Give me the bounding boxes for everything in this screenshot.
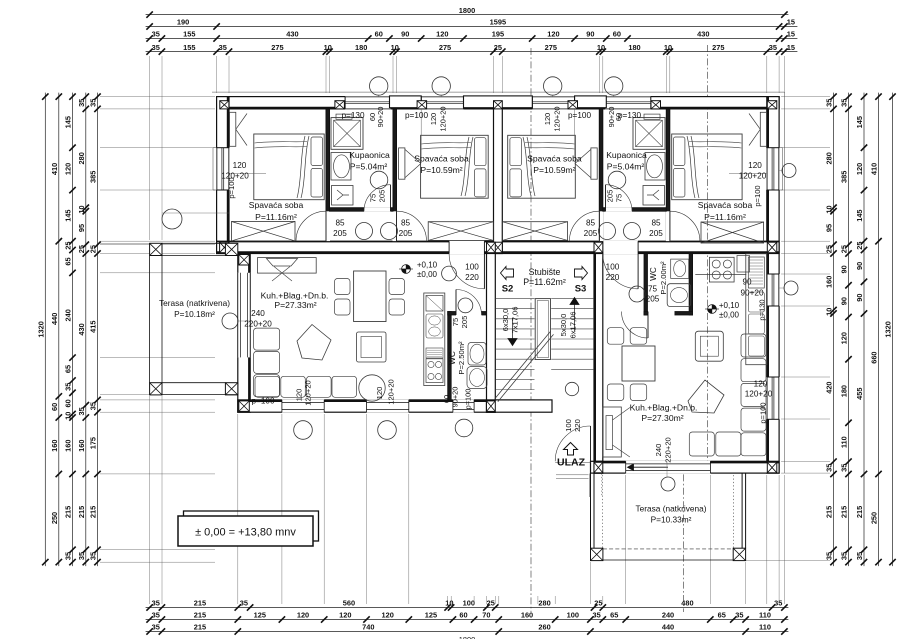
svg-text:120: 120: [543, 113, 552, 125]
svg-text:S2: S2: [502, 284, 514, 295]
svg-text:125: 125: [254, 611, 266, 620]
right terrace roof overhang dotted: [602, 475, 604, 548]
extension lines bottom: [149, 396, 151, 604]
svg-text:75: 75: [615, 194, 624, 202]
svg-text:35: 35: [774, 599, 782, 608]
right kitchen stove: [709, 257, 734, 282]
door gap bed1: [326, 211, 331, 241]
windows left living south: [281, 400, 283, 412]
svg-text:1320: 1320: [884, 321, 893, 337]
bath2 shower: [633, 118, 665, 150]
bath2 washbasin: [645, 153, 665, 181]
svg-text:90+20: 90+20: [376, 107, 385, 128]
svg-text:WC: WC: [649, 267, 658, 281]
north exterior wall: [217, 97, 780, 109]
svg-text:85: 85: [401, 219, 411, 228]
svg-text:P=2.00m²: P=2.00m²: [659, 261, 668, 295]
door left WC: [456, 290, 482, 316]
svg-text:P=11.16m²: P=11.16m²: [704, 212, 746, 222]
stair south wall segment: [487, 400, 553, 412]
svg-text:120: 120: [233, 161, 247, 170]
door ULAZ: [555, 426, 590, 461]
svg-text:10: 10: [324, 43, 332, 52]
svg-text:10: 10: [664, 43, 672, 52]
east exterior wall: [767, 97, 779, 474]
sliding door arrow right terrace: [632, 466, 668, 468]
svg-text:215: 215: [64, 506, 73, 518]
svg-text:120: 120: [436, 30, 448, 39]
svg-text:P=10.59m²: P=10.59m²: [420, 165, 462, 175]
svg-text:35: 35: [89, 99, 98, 107]
door bed1: [296, 211, 326, 241]
svg-text:240: 240: [251, 309, 265, 318]
svg-text:10: 10: [825, 205, 834, 213]
svg-text:35: 35: [152, 43, 160, 52]
right kitchen counter north: [695, 274, 746, 276]
svg-text:220+20: 220+20: [244, 320, 272, 329]
svg-text:Terasa (natkrivena): Terasa (natkrivena): [635, 504, 706, 514]
svg-text:420: 420: [825, 381, 834, 393]
svg-text:215: 215: [77, 506, 86, 518]
svg-text:p=100: p=100: [227, 177, 236, 198]
svg-text:205: 205: [584, 229, 598, 238]
left kitchen sink: [426, 314, 443, 338]
svg-text:240: 240: [662, 611, 674, 620]
bed4 radiator box: [701, 222, 764, 243]
door right WC: [622, 312, 649, 339]
svg-text:660: 660: [870, 351, 879, 363]
svg-text:120+20: 120+20: [553, 107, 562, 132]
svg-text:120: 120: [295, 389, 304, 402]
svg-text:125: 125: [425, 611, 437, 620]
svg-text:430: 430: [77, 323, 86, 335]
right dimension block: [833, 93, 835, 566]
left armchair rotated: [297, 325, 331, 361]
svg-text:+0,10: +0,10: [417, 261, 438, 270]
svg-text:35: 35: [89, 552, 98, 560]
bed1 wardrobe: [230, 112, 236, 146]
door left apartment: [449, 254, 484, 289]
svg-text:10: 10: [77, 205, 86, 213]
left kitchen stove: [426, 359, 443, 383]
ULAZ threshold line: [555, 462, 590, 464]
svg-text:160: 160: [521, 611, 533, 620]
svg-text:250: 250: [870, 512, 879, 524]
svg-text:1800: 1800: [459, 635, 475, 639]
right kitchen counter east: [746, 254, 767, 365]
svg-text:35: 35: [825, 552, 834, 560]
stair treads right flight: [551, 298, 594, 300]
svg-text:25: 25: [89, 245, 98, 253]
left dimension block: [44, 93, 46, 566]
svg-text:240: 240: [64, 309, 73, 321]
window right-living east 120: [767, 377, 780, 419]
bath2 door gap: [606, 207, 633, 212]
door opening left apartment entry: [449, 241, 484, 255]
svg-text:120+20: 120+20: [439, 107, 448, 132]
svg-text:Stubište: Stubište: [529, 267, 561, 277]
svg-text:120: 120: [339, 611, 351, 620]
svg-text:480: 480: [681, 599, 693, 608]
bath1 shower: [331, 118, 363, 150]
svg-text:35: 35: [855, 552, 864, 560]
svg-text:p=100: p=100: [753, 185, 762, 206]
svg-text:35: 35: [840, 99, 849, 107]
left kitchen fridge: [426, 296, 443, 312]
partition bed3/bath2: [599, 109, 603, 241]
svg-text:175: 175: [89, 437, 98, 449]
svg-text:Terasa (natkrivena): Terasa (natkrivena): [159, 298, 230, 308]
svg-text:205: 205: [649, 229, 663, 238]
svg-text:440: 440: [662, 623, 674, 632]
svg-text:430: 430: [286, 30, 298, 39]
svg-text:Kuh.+Blag.+Dn.b.: Kuh.+Blag.+Dn.b.: [630, 403, 698, 413]
svg-text:P=11.62m²: P=11.62m²: [523, 277, 566, 287]
svg-text:120: 120: [429, 113, 438, 125]
stair east wall: [594, 254, 603, 474]
svg-text:215: 215: [194, 611, 206, 620]
axis dash-dot lines: [530, 48, 532, 612]
bubble leader lines: [162, 212, 229, 214]
bed3 wardrobe: [591, 148, 597, 179]
S2 S3 section arrows: [501, 267, 514, 280]
svg-text:100: 100: [567, 611, 579, 620]
door bed2: [397, 211, 427, 241]
svg-text:120: 120: [375, 387, 384, 400]
svg-text:120: 120: [547, 30, 559, 39]
svg-text:90: 90: [855, 262, 864, 270]
svg-text:190: 190: [177, 18, 189, 27]
svg-text:120: 120: [748, 161, 762, 170]
stair arrow left flight: [512, 318, 514, 340]
svg-text:25: 25: [494, 43, 502, 52]
bed4 bed: [672, 134, 742, 200]
svg-text:Spavaća soba: Spavaća soba: [414, 154, 469, 164]
svg-text:430: 430: [697, 30, 709, 39]
right TV unit: [603, 407, 622, 457]
svg-text:Spavaća soba: Spavaća soba: [249, 200, 304, 210]
svg-text:95: 95: [825, 224, 834, 232]
svg-text:100: 100: [465, 263, 479, 272]
svg-text:90: 90: [586, 30, 594, 39]
svg-text:85: 85: [586, 219, 596, 228]
svg-text:Kupaonica: Kupaonica: [606, 150, 647, 160]
svg-text:1800: 1800: [459, 6, 475, 15]
svg-text:180: 180: [355, 43, 367, 52]
svg-text:35: 35: [152, 599, 160, 608]
window bath2 north: [605, 96, 651, 109]
svg-text:35: 35: [219, 43, 227, 52]
right WC bathtub: [667, 284, 691, 307]
stair treads left flight: [495, 298, 534, 300]
terrace door glazing right south wall: [625, 461, 627, 473]
west exterior wall: [217, 97, 229, 254]
left living south wall: [238, 400, 496, 412]
svg-text:275: 275: [439, 43, 451, 52]
svg-text:280: 280: [77, 152, 86, 164]
svg-text:205: 205: [646, 295, 660, 304]
svg-text:15: 15: [787, 18, 795, 27]
svg-text:± 0,00 = +13,80 mnv: ± 0,00 = +13,80 mnv: [195, 527, 296, 539]
svg-text:180: 180: [840, 385, 849, 397]
right WC walls: [644, 254, 648, 316]
svg-text:p=100: p=100: [252, 397, 275, 406]
roof eave line east: [783, 92, 785, 473]
svg-text:220: 220: [573, 419, 582, 432]
svg-text:35: 35: [735, 611, 743, 620]
svg-text:205: 205: [378, 190, 387, 203]
svg-text:205: 205: [399, 229, 413, 238]
svg-text:110: 110: [759, 623, 771, 632]
svg-text:120: 120: [297, 611, 309, 620]
window bed4 east: [767, 148, 780, 190]
svg-text:p=100: p=100: [464, 389, 473, 410]
svg-text:120: 120: [64, 163, 73, 175]
svg-text:25: 25: [840, 245, 849, 253]
bath1 toilet: [332, 186, 354, 206]
left living TV unit: [258, 258, 317, 274]
svg-text:100: 100: [564, 419, 573, 432]
svg-text:1595: 1595: [490, 18, 506, 27]
svg-text:P=10.33m²: P=10.33m²: [651, 515, 692, 525]
svg-text:160: 160: [825, 276, 834, 288]
partition bed1/bath1: [326, 109, 330, 241]
left WC washbasin: [468, 343, 486, 366]
bed4 wardrobe: [760, 112, 766, 146]
stair central stringer: [535, 299, 550, 360]
door bed4: [670, 211, 700, 241]
svg-text:155: 155: [183, 43, 195, 52]
svg-text:220+20: 220+20: [664, 437, 673, 463]
svg-text:85: 85: [651, 219, 661, 228]
svg-text:60: 60: [613, 30, 621, 39]
svg-text:385: 385: [840, 171, 849, 183]
roof eave line north: [212, 91, 784, 93]
window bed2 north: [421, 96, 463, 109]
bed2 wardrobe: [399, 148, 405, 179]
svg-text:145: 145: [855, 209, 864, 221]
svg-text:90: 90: [855, 293, 864, 301]
main band wall between bedrooms and living: [217, 241, 780, 253]
svg-text:±0,00: ±0,00: [719, 311, 740, 320]
svg-text:10: 10: [597, 43, 605, 52]
svg-text:145: 145: [64, 209, 73, 221]
svg-text:60: 60: [459, 611, 467, 620]
svg-text:P=27.30m²: P=27.30m²: [641, 413, 683, 423]
left level marker: [402, 265, 411, 274]
svg-text:415: 415: [89, 321, 98, 333]
terrace door glazing west wall: [237, 273, 239, 358]
extension stubs bottom: [447, 596, 449, 604]
svg-text:120+20: 120+20: [739, 172, 767, 181]
svg-text:P=10.18m²: P=10.18m²: [174, 309, 215, 319]
svg-text:385: 385: [89, 171, 98, 183]
right apartment south wall: [594, 461, 779, 473]
svg-text:215: 215: [855, 506, 864, 518]
svg-text:1320: 1320: [37, 321, 46, 337]
svg-text:90: 90: [840, 265, 849, 273]
window WC south: [452, 400, 454, 412]
right WC toilet: [671, 259, 689, 278]
svg-text:P=10.59m²: P=10.59m²: [533, 165, 575, 175]
svg-text:205: 205: [460, 316, 469, 329]
svg-text:75: 75: [648, 285, 658, 294]
svg-text:100: 100: [606, 263, 620, 272]
left square armchair: [357, 332, 387, 362]
svg-text:5x30,0: 5x30,0: [559, 314, 568, 337]
svg-text:6x30,0: 6x30,0: [501, 309, 510, 332]
svg-text:740: 740: [362, 623, 374, 632]
right terrace door gap: [626, 461, 711, 474]
top dimension block: [146, 14, 789, 16]
svg-text:P=5.04m²: P=5.04m²: [350, 162, 388, 172]
svg-text:35: 35: [152, 30, 160, 39]
door bath2: [606, 185, 633, 212]
svg-text:145: 145: [855, 116, 864, 128]
svg-text:p=100: p=100: [568, 111, 591, 120]
svg-text:120+20: 120+20: [745, 390, 773, 399]
left kitchen dishwasher: [426, 348, 443, 358]
bed2 radiator box: [428, 222, 493, 241]
svg-text:440: 440: [50, 313, 59, 325]
svg-text:10: 10: [391, 43, 399, 52]
svg-text:205: 205: [606, 190, 615, 203]
svg-text:275: 275: [712, 43, 724, 52]
door bath1: [364, 185, 391, 212]
svg-text:p=130: p=130: [758, 299, 767, 320]
right level marker: [708, 305, 717, 314]
svg-text:+0,10: +0,10: [719, 301, 740, 310]
elevation box: [184, 511, 319, 541]
svg-text:280: 280: [825, 152, 834, 164]
svg-text:410: 410: [50, 163, 59, 175]
svg-text:10: 10: [445, 599, 453, 608]
stair break line: [495, 331, 551, 398]
svg-text:35: 35: [77, 407, 86, 415]
svg-text:S3: S3: [575, 284, 587, 295]
svg-text:215: 215: [825, 506, 834, 518]
svg-text:180: 180: [628, 43, 640, 52]
svg-text:120: 120: [382, 611, 394, 620]
svg-text:60: 60: [375, 30, 383, 39]
svg-text:90: 90: [840, 297, 849, 305]
left round table: [359, 375, 385, 401]
left kitchen counter: [424, 293, 445, 386]
svg-text:120: 120: [754, 380, 768, 389]
svg-text:110: 110: [840, 436, 849, 448]
svg-text:275: 275: [545, 43, 557, 52]
svg-text:260: 260: [538, 623, 550, 632]
central wall between apartments: [494, 97, 503, 254]
svg-text:85: 85: [335, 219, 345, 228]
terrace door gap in west wall: [237, 273, 250, 358]
svg-text:35: 35: [64, 383, 73, 391]
svg-text:±0,00: ±0,00: [417, 270, 438, 279]
svg-text:75: 75: [369, 194, 378, 202]
right terrace: [591, 548, 603, 560]
bath1 washbasin: [331, 153, 351, 181]
svg-text:240: 240: [654, 444, 663, 457]
svg-text:90: 90: [401, 30, 409, 39]
left WC toilet: [467, 367, 487, 389]
bed3 radiator box: [502, 222, 567, 241]
bed2 bed: [421, 135, 489, 198]
svg-text:280: 280: [538, 599, 550, 608]
axis bubbles: [370, 77, 388, 95]
svg-text:60: 60: [50, 403, 59, 411]
bed3 bed: [508, 135, 576, 198]
svg-text:35: 35: [77, 99, 86, 107]
svg-text:60: 60: [64, 399, 73, 407]
svg-text:410: 410: [870, 163, 879, 175]
svg-text:195: 195: [492, 30, 504, 39]
stair arrow up right flight: [574, 303, 576, 331]
bed1 bed: [254, 134, 324, 200]
svg-text:250: 250: [50, 512, 59, 524]
svg-text:100: 100: [463, 599, 475, 608]
svg-text:Spavaća soba: Spavaća soba: [698, 200, 753, 210]
stair west wall: [487, 254, 496, 413]
door bed3: [569, 211, 599, 241]
extension lines right: [781, 96, 830, 98]
svg-text:160: 160: [50, 440, 59, 452]
svg-text:Kuh.+Blag.+Dn.b.: Kuh.+Blag.+Dn.b.: [261, 291, 329, 301]
left dining table: [354, 271, 386, 322]
svg-text:p=100: p=100: [405, 111, 428, 120]
svg-text:25: 25: [594, 599, 602, 608]
svg-text:65: 65: [64, 257, 73, 265]
svg-text:120: 120: [855, 163, 864, 175]
svg-text:35: 35: [592, 611, 600, 620]
svg-text:155: 155: [183, 30, 195, 39]
svg-text:220: 220: [606, 273, 620, 282]
svg-text:90+20: 90+20: [451, 387, 460, 408]
svg-text:Spavaća soba: Spavaća soba: [527, 154, 582, 164]
stair landing circle: [565, 382, 578, 395]
svg-text:275: 275: [271, 43, 283, 52]
svg-text:75: 75: [451, 318, 460, 326]
svg-text:35: 35: [89, 402, 98, 410]
svg-text:35: 35: [840, 552, 849, 560]
svg-text:15: 15: [787, 30, 795, 39]
svg-text:P=2.50m²: P=2.50m²: [457, 341, 466, 375]
svg-text:215: 215: [194, 599, 206, 608]
extension lines left: [100, 96, 215, 98]
svg-text:ULAZ: ULAZ: [557, 457, 586, 469]
window bath1 north: [345, 96, 391, 109]
svg-text:220: 220: [465, 273, 479, 282]
ULAZ arrow and label: [564, 443, 578, 456]
door right apartment: [603, 254, 638, 289]
door opening right apartment entry: [603, 241, 638, 255]
svg-text:35: 35: [240, 599, 248, 608]
bath2 toilet: [643, 186, 665, 206]
column blocks: [220, 101, 229, 109]
svg-text:7x17,06: 7x17,06: [511, 306, 520, 333]
svg-text:35: 35: [825, 464, 834, 472]
svg-text:160: 160: [77, 440, 86, 452]
svg-text:p=100: p=100: [759, 402, 768, 423]
svg-text:15: 15: [787, 43, 795, 52]
svg-text:25: 25: [825, 245, 834, 253]
svg-text:10: 10: [64, 412, 73, 420]
left living west wall: [238, 254, 250, 413]
left terrace: [150, 243, 162, 255]
svg-text:P=27.33m²: P=27.33m²: [274, 300, 316, 310]
svg-text:25: 25: [487, 599, 495, 608]
left WC walls: [448, 312, 452, 400]
svg-text:110: 110: [759, 611, 771, 620]
